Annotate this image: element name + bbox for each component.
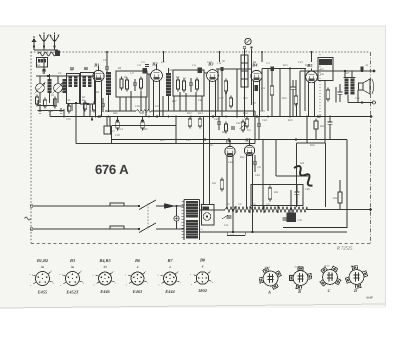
ground G2 xyxy=(60,108,62,111)
svg-text:676 A: 676 A xyxy=(95,162,129,177)
core tick marks xyxy=(182,200,185,202)
anode coil S7 of B1 xyxy=(106,72,111,95)
svg-text:1,0: 1,0 xyxy=(130,72,134,75)
coil S4 xyxy=(63,79,67,93)
resistor R5 in IF box xyxy=(120,79,123,88)
svg-text:C38: C38 xyxy=(115,134,120,137)
tube B5 leads xyxy=(308,83,310,117)
voltage arrow marker xyxy=(164,203,176,209)
wire switch to transformer upper xyxy=(156,205,184,207)
chassis dashed border top xyxy=(31,51,370,53)
mains wire upper xyxy=(33,205,139,207)
svg-text:B7: B7 xyxy=(244,137,251,142)
svg-text:33: 33 xyxy=(102,265,107,269)
svg-text:C41: C41 xyxy=(214,118,219,121)
extra wiring verticals top band xyxy=(67,104,69,111)
tube B6 leads xyxy=(226,156,228,209)
grid wire B3 to B4 xyxy=(216,68,251,70)
band filter unit box 1 xyxy=(67,74,80,104)
decoupling blob under bus x117 xyxy=(116,119,119,122)
capacitor C14 in box xyxy=(189,82,193,84)
loudspeaker xyxy=(359,79,371,94)
svg-text:20-4F: 20-4F xyxy=(324,264,330,267)
HT bus (heavy) xyxy=(111,139,347,141)
IF amplifier tube B2 xyxy=(151,70,163,82)
svg-text:C25: C25 xyxy=(260,110,265,113)
pilot lamp L1 xyxy=(174,216,179,221)
junction dots anode bus xyxy=(344,70,346,72)
cable plug socket D xyxy=(345,264,367,293)
capacitor C5 at B1 grid xyxy=(105,66,109,68)
svg-text:R31: R31 xyxy=(208,144,214,147)
svg-text:C17: C17 xyxy=(219,97,224,100)
mains input wavy symbol xyxy=(25,217,31,220)
coupling capacitor C24 xyxy=(257,123,261,125)
svg-text:C36: C36 xyxy=(135,105,140,108)
mains switch blade upper xyxy=(138,205,140,207)
svg-text:R17: R17 xyxy=(304,64,310,67)
wire switch to transformer lower xyxy=(156,228,184,230)
resistor R10 in box xyxy=(196,80,199,89)
capacitor C26 xyxy=(338,91,343,93)
svg-text:B3: B3 xyxy=(69,258,76,263)
svg-text:C39: C39 xyxy=(186,139,191,142)
svg-text:3a: 3a xyxy=(40,265,45,269)
svg-text:5,0: 5,0 xyxy=(327,62,331,65)
detector load cluster R32a xyxy=(225,124,228,131)
tube B4 leads xyxy=(253,81,255,117)
anode bus line xyxy=(300,70,374,72)
svg-text:+B: +B xyxy=(365,64,369,67)
svg-text:R29: R29 xyxy=(142,128,148,131)
decoupling resistor R20 under bus xyxy=(116,122,119,128)
detector load cluster C42a xyxy=(231,126,235,128)
decoupling resistor R21 xyxy=(141,122,144,128)
svg-text:4: 4 xyxy=(201,265,204,269)
tube B3 leads xyxy=(209,81,211,117)
trimmer capacitors left section xyxy=(42,69,46,71)
svg-text:C49: C49 xyxy=(298,219,303,222)
component C47 on return bus xyxy=(227,235,245,237)
svg-text:E446: E446 xyxy=(99,289,110,294)
resistor R33 xyxy=(220,180,223,189)
resistor R9 in box xyxy=(183,81,186,90)
svg-text:0,1: 0,1 xyxy=(183,77,187,80)
cable plug socket C xyxy=(320,264,341,293)
svg-text:B6: B6 xyxy=(134,258,141,263)
second IF box unit xyxy=(173,70,204,96)
valve socket B3 (E452T) xyxy=(59,258,84,295)
capacitor C46 xyxy=(295,191,300,193)
junction node antenna bus xyxy=(34,49,58,51)
valve socket B7 (E444) xyxy=(157,258,181,294)
svg-text:C42: C42 xyxy=(228,161,233,164)
svg-text:C48: C48 xyxy=(305,188,310,191)
field coil S29 (curly) xyxy=(294,166,313,186)
svg-text:C15: C15 xyxy=(207,61,212,64)
resistor R23 xyxy=(198,119,201,126)
svg-text:20-4F: 20-4F xyxy=(351,264,357,267)
resistor R35 xyxy=(268,188,272,199)
svg-text:S29: S29 xyxy=(300,162,305,165)
svg-text:R22: R22 xyxy=(186,112,192,115)
antenna A2 xyxy=(51,35,59,43)
decoupling capacitor box C7 under bus xyxy=(104,126,111,134)
fuse F2 (bump) xyxy=(110,226,124,229)
svg-text:C42: C42 xyxy=(236,122,241,125)
voltage selector dropper resistor (zigzag) xyxy=(225,207,307,212)
ground symbol (earth connection) xyxy=(31,38,36,42)
variable capacitor C2 xyxy=(54,84,63,93)
rectifier tube B6 xyxy=(225,146,235,156)
resistor R36 xyxy=(338,192,342,203)
svg-text:R32: R32 xyxy=(239,156,245,159)
svg-text:C19: C19 xyxy=(243,97,248,100)
svg-text:R34: R34 xyxy=(309,144,315,147)
cathode resistor R14 dark blob xyxy=(255,85,259,91)
electrolytic capacitor C30 xyxy=(328,121,333,123)
wire C22 down xyxy=(267,69,269,112)
tube B1 leads xyxy=(95,81,97,117)
wire feeds to pickup box xyxy=(203,117,205,205)
dial drive shaft xyxy=(241,55,248,87)
valve socket B8 (1802) xyxy=(190,258,214,294)
decoupling blob under bus x142 xyxy=(141,119,144,122)
wire box to B3 xyxy=(204,72,207,74)
svg-text:R8: R8 xyxy=(175,76,180,79)
svg-text:R20: R20 xyxy=(112,112,118,115)
hanging blob x92 xyxy=(91,118,93,120)
mains switch blade lower xyxy=(138,228,140,230)
+B junction blob xyxy=(361,66,364,70)
bus line thin lower xyxy=(76,143,255,145)
output coupling box S26 xyxy=(318,58,333,81)
svg-text:C34: C34 xyxy=(48,110,53,113)
mains terminal upper xyxy=(30,205,33,208)
capacitor C23 xyxy=(291,86,296,88)
svg-text:C35: C35 xyxy=(90,110,95,113)
autotransformer winding lower xyxy=(186,220,198,239)
cable plug socket B xyxy=(290,265,312,294)
svg-text:0,5: 0,5 xyxy=(247,129,251,132)
svg-text:C45: C45 xyxy=(224,224,229,227)
capacitor C12 top of B2 xyxy=(145,64,149,66)
valve socket B4,B5 (E446) xyxy=(92,258,116,294)
svg-text:1802: 1802 xyxy=(198,288,208,293)
svg-text:B8: B8 xyxy=(199,258,206,263)
fuse F1 (bump) xyxy=(110,203,124,206)
mains autotransformer core xyxy=(183,200,185,241)
coil S10 beside B2 xyxy=(166,73,171,96)
resistor R24 xyxy=(245,119,248,126)
variable capacitor C1 (tuning) xyxy=(36,84,45,93)
svg-text:R15: R15 xyxy=(282,64,288,67)
wire B6 B7 tops xyxy=(229,140,231,147)
autotransformer winding upper xyxy=(186,201,198,218)
svg-text:R35: R35 xyxy=(273,191,279,194)
aerial coupling coil S1 (loops) xyxy=(38,52,56,56)
svg-text:C23: C23 xyxy=(298,61,303,64)
aerial filter box with coil S2 xyxy=(37,58,48,68)
svg-text:E452T: E452T xyxy=(65,290,79,295)
HT heavy bottom return xyxy=(283,227,348,229)
output tube B5 xyxy=(306,71,318,83)
first IF box unit xyxy=(116,71,147,97)
svg-text:B7: B7 xyxy=(166,258,173,263)
svg-text:S27: S27 xyxy=(345,72,350,75)
tube B7 leads xyxy=(246,155,248,209)
svg-text:20-4F: 20-4F xyxy=(265,266,271,269)
wire rectifier output vertical xyxy=(262,140,264,210)
capacitor C43 xyxy=(253,161,257,163)
svg-text:R23: R23 xyxy=(197,112,203,115)
wire detector vertical xyxy=(236,69,238,117)
svg-text:20-4F: 20-4F xyxy=(295,265,301,268)
wires IF box to B2 xyxy=(147,73,151,75)
svg-text:B6: B6 xyxy=(225,138,232,143)
grid capacitor C16 (dark) xyxy=(221,67,224,71)
svg-text:B1,B2: B1,B2 xyxy=(36,258,49,263)
junction dots on buses xyxy=(99,115,101,117)
svg-text:2x: 2x xyxy=(201,228,203,231)
wire to field coil xyxy=(275,140,277,177)
cable plug socket A xyxy=(259,266,281,295)
svg-text:B2: B2 xyxy=(151,62,158,67)
tube B2 leads xyxy=(153,81,155,117)
valve socket B1,B2 (E455) xyxy=(29,258,54,295)
coupling capacitor C22 (dark) xyxy=(271,67,275,71)
volume potentiometer R28 xyxy=(241,122,244,130)
wire left loop bottom xyxy=(40,110,64,112)
svg-text:R33: R33 xyxy=(211,182,217,185)
wire inner verticals xyxy=(306,117,308,143)
detector capacitor C15 (dark) xyxy=(198,67,203,73)
svg-text:L: L xyxy=(245,50,248,53)
svg-text:C44: C44 xyxy=(255,174,260,177)
chassis dashed border bottom xyxy=(31,243,370,245)
ground G1 xyxy=(39,108,41,111)
grid leak resistor R12 xyxy=(224,81,227,91)
HT heavy vertical xyxy=(346,140,348,228)
dial cord terminals xyxy=(243,46,246,49)
pick-up / gramo box xyxy=(202,205,215,226)
main cathode bus (heavy) xyxy=(50,116,371,118)
left bus risers xyxy=(49,111,51,117)
wire speaker return line xyxy=(348,102,372,104)
junction dot row on cathode bus xyxy=(63,116,65,118)
grid cap wires up to chassis border xyxy=(106,52,108,62)
grid resistor R18 xyxy=(326,90,329,99)
svg-text:C33: C33 xyxy=(66,118,71,121)
wire antenna to tuner xyxy=(43,57,45,70)
antenna A1 xyxy=(40,35,48,43)
svg-text:R19: R19 xyxy=(287,119,293,122)
resistor R25 right section xyxy=(314,121,318,129)
svg-text:E455: E455 xyxy=(37,290,48,295)
dial lamp circle xyxy=(245,38,251,44)
svg-text:R2: R2 xyxy=(81,96,86,99)
svg-text:D: D xyxy=(353,288,357,293)
left small components row (grid leaks, padders) xyxy=(35,97,38,104)
buffer capacitor C49 xyxy=(287,213,297,223)
svg-text:R26: R26 xyxy=(221,131,227,134)
svg-text:E444: E444 xyxy=(164,289,175,294)
svg-text:R 72525: R 72525 xyxy=(336,246,353,251)
svg-text:R30: R30 xyxy=(159,139,165,142)
switch gang dashed link xyxy=(147,204,149,230)
detector load cluster C41 xyxy=(217,121,221,123)
wire transformer to dropper xyxy=(200,209,226,211)
wire left inner loop xyxy=(38,105,55,107)
resistor R7 in IF box xyxy=(140,79,143,88)
capacitor C9 in IF box xyxy=(133,82,137,84)
smoothing box with C46 R35 xyxy=(251,185,303,206)
svg-text:B: B xyxy=(297,289,301,294)
svg-text:C40: C40 xyxy=(198,99,203,102)
resistor R22 xyxy=(188,119,191,126)
valve socket B6 (E463) xyxy=(125,258,149,294)
output transformer S27 xyxy=(344,77,356,79)
padding capacitor C4 xyxy=(101,103,105,105)
wire dropper to right border xyxy=(307,209,371,211)
coil S3 xyxy=(48,79,52,93)
AF tube B4 xyxy=(251,70,262,81)
svg-text:R21: R21 xyxy=(139,112,145,115)
chassis dashed border right (dash-dot) xyxy=(370,52,372,244)
svg-text:C37: C37 xyxy=(155,105,160,108)
junction C23 xyxy=(289,68,291,70)
detector tube B3 xyxy=(207,70,219,82)
svg-text:S10: S10 xyxy=(168,69,173,72)
svg-text:3a: 3a xyxy=(70,265,75,269)
svg-text:R19: R19 xyxy=(281,97,287,100)
svg-text:C31: C31 xyxy=(355,97,360,100)
grid wire B4 to B5 xyxy=(262,68,306,70)
junctions under B1 xyxy=(98,116,100,118)
svg-text:A14P: A14P xyxy=(365,296,373,300)
wire left section top bus xyxy=(36,75,95,77)
svg-text:R5: R5 xyxy=(117,67,122,70)
wire C1 leads xyxy=(39,76,41,84)
svg-text:2: 2 xyxy=(168,265,171,269)
AVC dashed line xyxy=(319,54,321,117)
svg-text:4,5: 4,5 xyxy=(161,61,165,64)
rectifier tube B7 xyxy=(244,145,254,155)
mains terminal lower xyxy=(30,228,33,231)
svg-text:B4,B5: B4,B5 xyxy=(98,258,111,263)
svg-text:R36: R36 xyxy=(332,197,338,200)
svg-text:R3: R3 xyxy=(95,91,100,94)
svg-text:A: A xyxy=(267,289,271,294)
RF amplifier tube B1 xyxy=(93,70,104,81)
volume control R13 xyxy=(229,98,232,106)
chassis dashed border left xyxy=(30,52,32,243)
mains wire lower xyxy=(33,228,139,230)
svg-text:R24: R24 xyxy=(242,112,248,115)
svg-text:E463: E463 xyxy=(132,289,143,294)
bus line thin middle xyxy=(112,125,176,127)
inner supply box xyxy=(296,143,298,207)
svg-text:R25: R25 xyxy=(319,125,325,128)
motor symbol M xyxy=(203,213,211,221)
band filter unit box 2 xyxy=(81,73,95,105)
junction dots RF row xyxy=(75,102,77,104)
blocking capacitor C10 (dark) xyxy=(143,68,148,74)
svg-text:C24: C24 xyxy=(262,119,267,122)
svg-text:R14: R14 xyxy=(260,87,266,90)
resistor R6 in IF box xyxy=(126,80,129,89)
capacitor C45 with arrow xyxy=(222,215,228,219)
voltage tap ticks xyxy=(235,206,237,213)
svg-text:C20: C20 xyxy=(251,102,256,105)
svg-text:R6: R6 xyxy=(123,76,128,79)
grid resistor R15 xyxy=(270,86,273,95)
resistor R8 in box xyxy=(177,80,180,89)
svg-text:C: C xyxy=(328,288,331,293)
bus line thin upper with resistor R11 zigzag xyxy=(105,110,136,112)
resistor R16 xyxy=(294,96,297,104)
svg-text:4,13: 4,13 xyxy=(118,128,123,131)
bottom return bus xyxy=(200,231,348,233)
